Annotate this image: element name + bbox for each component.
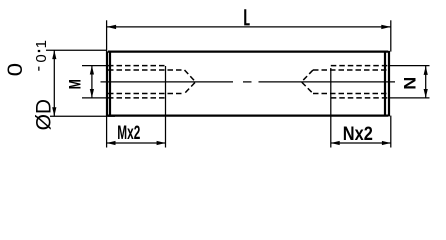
svg-text:N: N <box>400 77 419 90</box>
svg-text:-: - <box>29 66 48 72</box>
svg-text:Mx2: Mx2 <box>117 123 140 144</box>
svg-text:1: 1 <box>33 40 50 48</box>
svg-text:0: 0 <box>33 54 50 62</box>
svg-text:Nx2: Nx2 <box>343 124 373 145</box>
svg-text:M: M <box>65 79 84 89</box>
svg-text:0: 0 <box>4 63 27 77</box>
svg-text:ØD: ØD <box>32 99 55 131</box>
